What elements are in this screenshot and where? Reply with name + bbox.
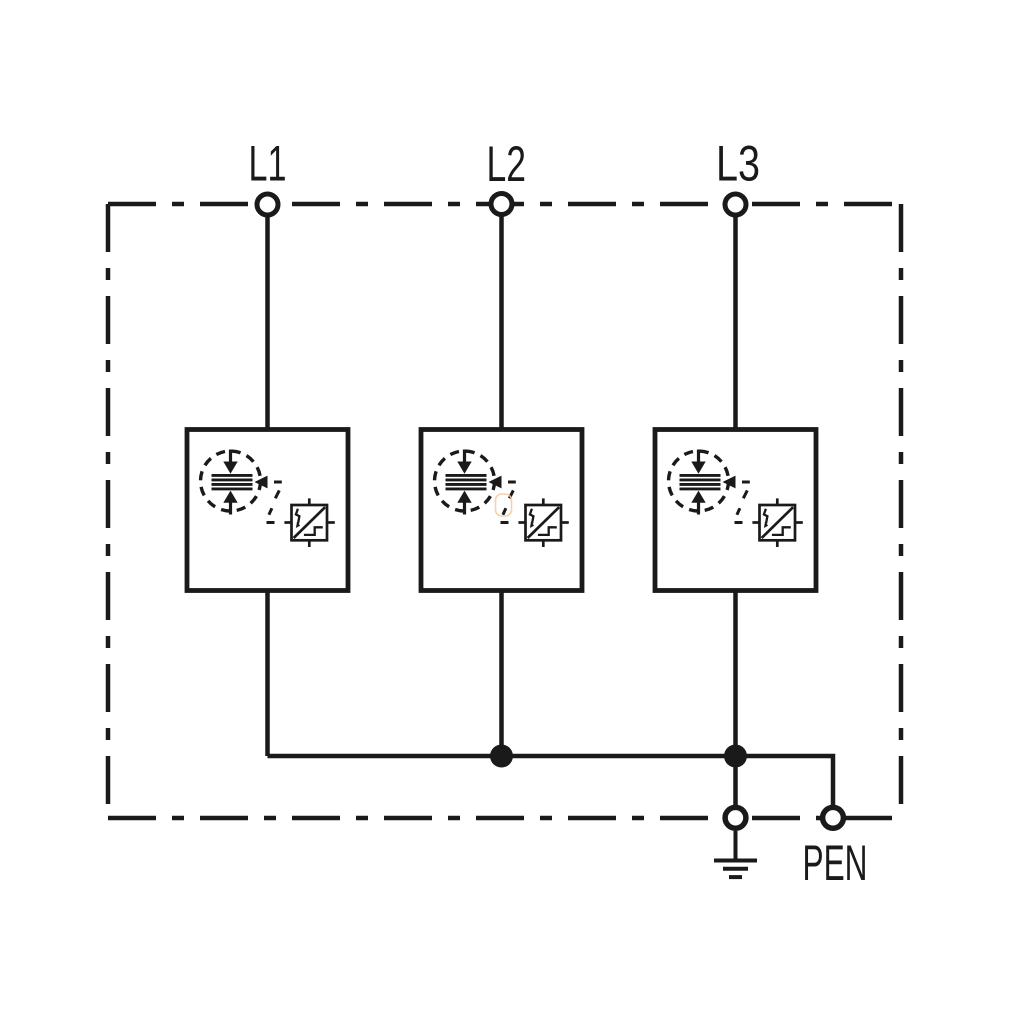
trigger module step wave	[304, 527, 323, 535]
spark gap dashed circle	[201, 451, 261, 511]
wire L2 top drop	[499, 215, 504, 431]
wire ground drop	[733, 756, 738, 806]
svg-text:L3: L3	[716, 136, 760, 192]
SPD module F1 (L1 path)	[187, 430, 348, 591]
wire L3 bottom drop	[733, 589, 738, 756]
svg-text:PEN: PEN	[803, 835, 868, 891]
arrow bottom	[223, 491, 237, 515]
enclosure dash-dot border	[108, 204, 901, 818]
svg-text:L2: L2	[487, 136, 527, 192]
wire L1 bottom drop	[265, 589, 270, 756]
trigger module lightning bolt	[296, 509, 300, 524]
SPD module F3 (L3 path)	[655, 430, 816, 591]
trigger arrow (points into spark gap)	[255, 476, 268, 489]
spark gap electrode stack	[212, 475, 253, 489]
terminal L3	[725, 194, 746, 215]
terminal L1	[257, 194, 278, 215]
terminal PEN	[823, 807, 844, 828]
svg-text:L1: L1	[249, 136, 287, 192]
trigger module diagonal	[294, 507, 326, 538]
ground symbol	[714, 831, 757, 877]
faint orange mark on F2 trigger line	[496, 494, 512, 516]
wire L1 top drop	[265, 215, 270, 431]
SPD box F1	[187, 430, 348, 591]
terminal L2	[491, 194, 512, 215]
junction dot L3-bus	[724, 745, 747, 768]
wire L3 top drop	[733, 215, 738, 431]
SPD module F2 (L2 path)	[421, 430, 582, 591]
trigger dashed control line	[267, 482, 282, 523]
terminal ground	[725, 807, 746, 828]
arrow top	[223, 450, 237, 474]
trigger module pins	[284, 498, 334, 547]
trigger module box	[284, 498, 334, 547]
wire PEN bus	[268, 756, 834, 806]
wire L2 bottom drop	[499, 589, 504, 756]
junction dot L2-bus	[490, 745, 513, 768]
